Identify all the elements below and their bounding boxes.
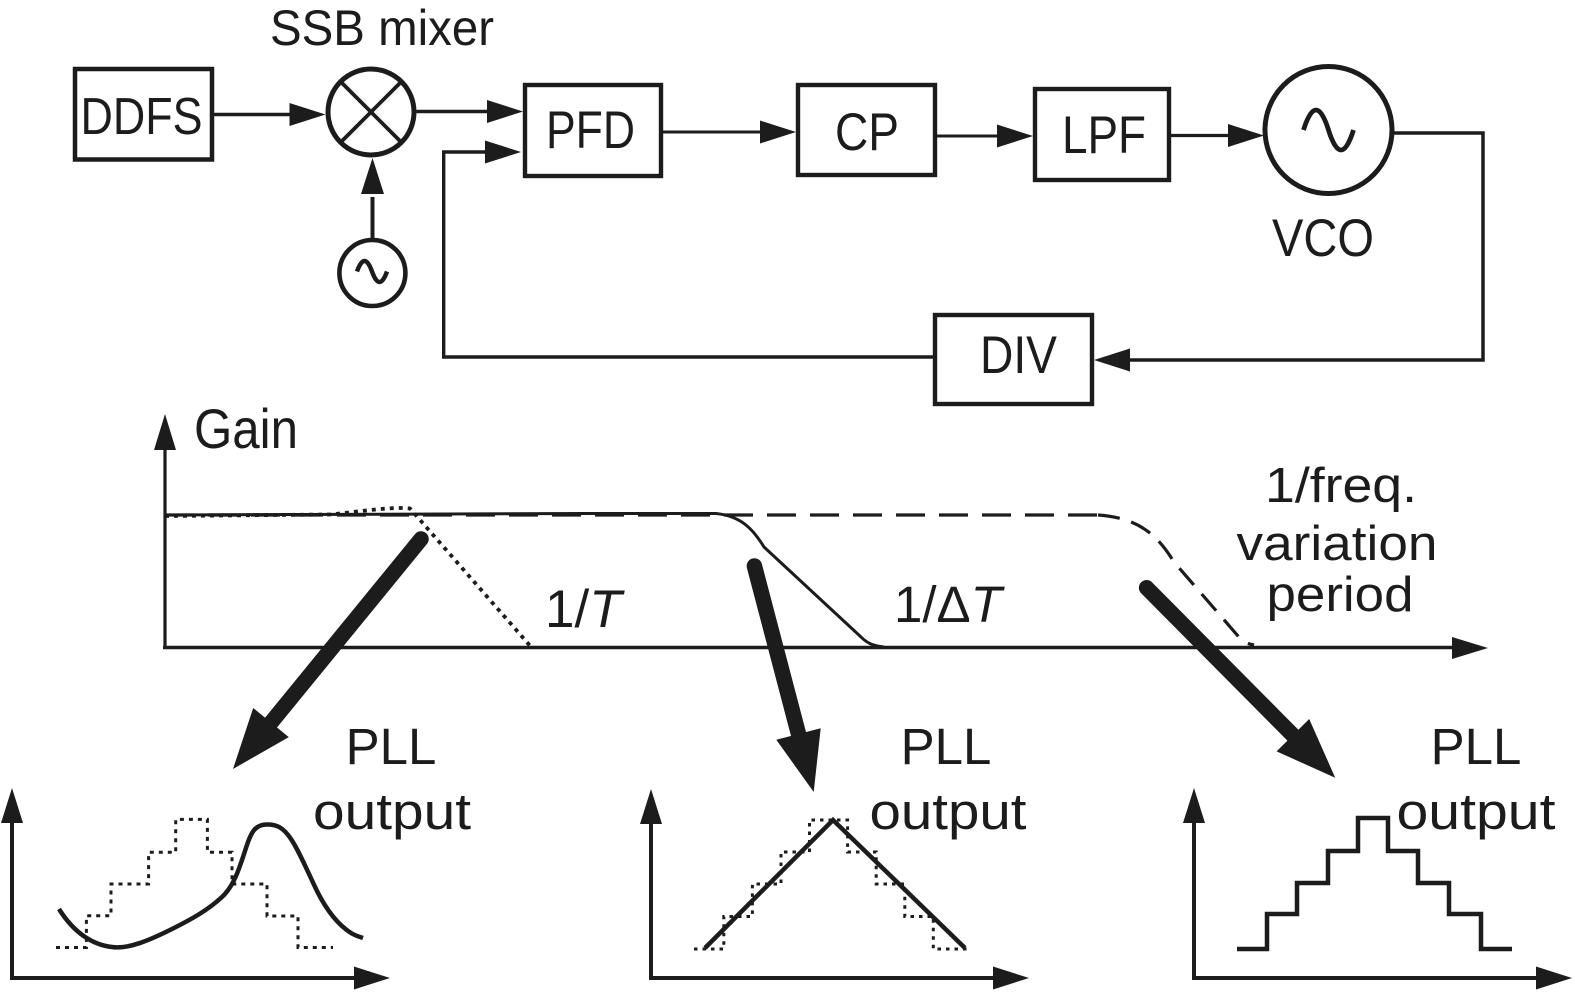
svg-text:output: output [1397,783,1556,840]
svg-text:1/T: 1/T [545,580,625,639]
oscillator OSC1 [339,240,405,306]
svg-text:PLL: PLL [1431,718,1522,775]
wire VCO to DIV [1094,133,1483,372]
curve dashed 1/freq variation period [165,515,1254,645]
curve dotted 1/T [165,508,532,648]
mixer M1 [328,69,414,155]
oscillator VCO [1265,67,1392,269]
thick arrow 1 [233,539,421,769]
plot2 y-axis [640,789,662,978]
svg-text:output: output [870,783,1027,840]
plot1 solid output curve [59,824,363,947]
wire LPF to VCO [1171,124,1264,147]
block PFD [525,85,661,176]
label Gain [194,397,298,460]
svg-text:Gain: Gain [194,397,298,460]
svg-text:DDFS: DDFS [81,88,203,146]
label 1/freq. variation period [1237,459,1438,622]
label PLL output 2 [870,718,1027,840]
plot1 y-axis [1,788,23,978]
wire DIV to PFD feedback [444,141,933,358]
plot3 x-axis [1192,967,1572,990]
svg-text:PLL: PLL [901,718,992,775]
thick arrow 2 [754,566,820,792]
svg-text:CP: CP [835,103,899,162]
plot2 x-axis [649,967,1029,990]
label 1/T [545,580,625,639]
curve solid 1/deltaT [165,514,884,648]
block DIV [935,315,1092,404]
plot2 dotted staircase [694,820,967,949]
block CP [798,85,935,175]
svg-text:PLL: PLL [346,718,437,775]
svg-text:variation: variation [1237,517,1438,571]
wire mixer to PFD [417,100,524,123]
svg-text:1/freq.: 1/freq. [1265,459,1417,513]
plot1 x-axis [10,967,390,990]
svg-text:PFD: PFD [546,101,635,160]
gain plot x-axis [163,637,1488,659]
label SSB mixer [270,0,494,56]
svg-text:1/ΔT: 1/ΔT [894,576,1006,633]
gain plot y-axis [154,414,176,648]
plot2 triangle output curve [705,820,965,948]
svg-text:output: output [313,783,471,840]
svg-text:period: period [1267,568,1414,622]
wire CP to LPF [937,125,1033,148]
wire oscillator to mixer [361,158,384,238]
plot3 staircase output curve [1237,818,1512,949]
label PLL output 1 [313,718,471,840]
svg-text:SSB mixer: SSB mixer [270,0,494,56]
label PLL output 3 [1397,718,1556,840]
plot1 dotted staircase [56,819,333,947]
svg-text:VCO: VCO [1272,209,1374,268]
plot3 y-axis [1183,788,1205,978]
wire PFD to CP [663,121,796,144]
thick arrow 3 [1147,588,1336,778]
svg-text:LPF: LPF [1062,106,1146,165]
wire DDFS to mixer [214,103,326,126]
svg-text:DIV: DIV [980,326,1058,385]
block DDFS [75,69,212,160]
label 1/deltaT [894,576,1006,633]
block LPF [1035,89,1169,180]
